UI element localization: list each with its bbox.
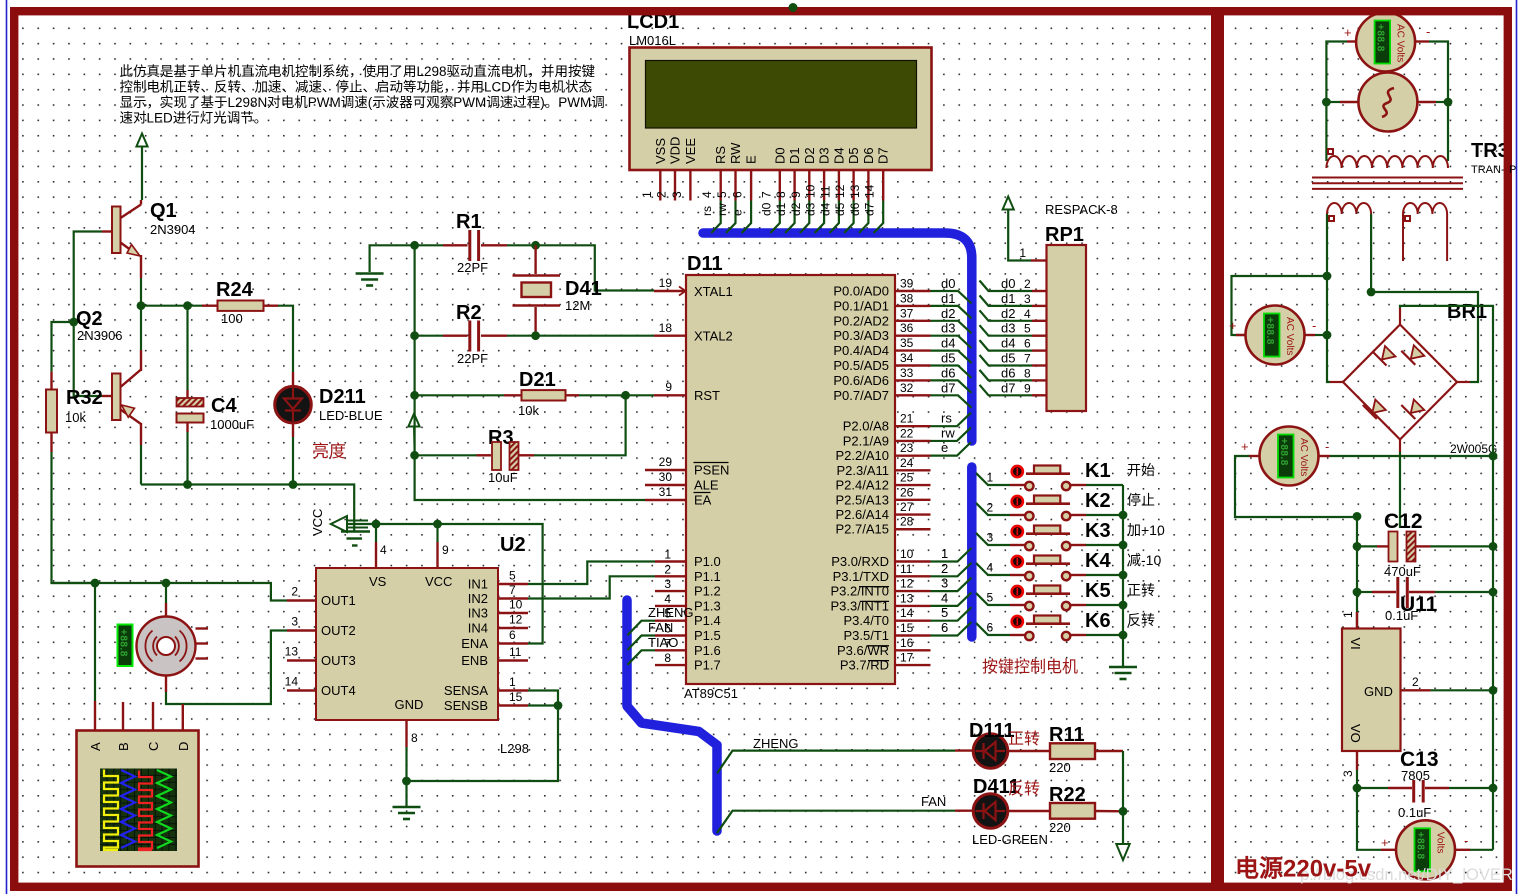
svg-text:P1.2: P1.2 — [694, 584, 721, 599]
svg-text:14: 14 — [863, 184, 877, 198]
svg-text:OUT3: OUT3 — [321, 653, 356, 668]
svg-text:D2: D2 — [802, 147, 817, 164]
svg-text:d5: d5 — [941, 351, 955, 366]
ground — [1109, 667, 1137, 679]
svg-text:P1.5: P1.5 — [694, 628, 721, 643]
svg-text:ENA: ENA — [461, 636, 488, 651]
svg-text:5: 5 — [509, 569, 516, 583]
svg-text:34: 34 — [900, 351, 914, 365]
svg-text:R24: R24 — [216, 279, 254, 301]
svg-text:2: 2 — [1024, 277, 1031, 291]
wire R2 to XTAL2 — [507, 335, 654, 337]
svg-text:d6: d6 — [1001, 365, 1015, 380]
junction — [1444, 98, 1453, 107]
junction right rail — [1489, 588, 1498, 597]
svg-text:P1.3: P1.3 — [694, 598, 721, 613]
svg-text:P3.0/RXD: P3.0/RXD — [831, 554, 889, 569]
svg-text:31: 31 — [659, 485, 673, 499]
ground — [393, 807, 421, 819]
wire meter- to rail — [1470, 849, 1493, 851]
junction — [1323, 331, 1332, 340]
green dot artifact on top border — [789, 3, 798, 12]
wire secondary left leg — [1326, 214, 1328, 276]
junction VS — [372, 520, 381, 529]
bottom rail wire — [141, 485, 354, 531]
svg-text:4: 4 — [380, 543, 387, 557]
U11 pin 2 GND — [1401, 689, 1431, 691]
svg-text:10k: 10k — [518, 403, 539, 418]
svg-text:10: 10 — [900, 547, 914, 561]
svg-text:Q2: Q2 — [76, 308, 103, 330]
wire key net 3 P3.2 to bus — [931, 578, 972, 592]
svg-text:+: + — [1241, 439, 1249, 454]
switch K2 — [976, 503, 1010, 515]
svg-text:d5: d5 — [833, 202, 847, 216]
svg-text:28: 28 — [900, 515, 914, 529]
voltmeter AC middle — [1246, 306, 1305, 365]
svg-text:rw: rw — [941, 425, 955, 440]
svg-text:7: 7 — [509, 583, 516, 597]
svg-text:470uF: 470uF — [1384, 564, 1421, 579]
svg-text:d0: d0 — [1001, 276, 1015, 291]
svg-text:d7: d7 — [863, 202, 877, 216]
wire top motor rail — [52, 583, 288, 601]
junction — [1119, 511, 1128, 520]
junction right rail — [1489, 452, 1498, 461]
D11 pin 8 P1.7 — [655, 664, 686, 666]
svg-text:d6: d6 — [848, 202, 862, 216]
wire scope channel A — [94, 583, 96, 701]
svg-text:d3: d3 — [941, 321, 955, 336]
voltmeter AC lower — [1260, 427, 1319, 486]
svg-text:3: 3 — [1024, 292, 1031, 306]
VCC power flag — [331, 516, 347, 532]
wire left rail — [1356, 516, 1358, 630]
wire right rail down — [1492, 456, 1494, 850]
svg-text:ZHENG: ZHENG — [648, 605, 694, 620]
U2 top pins VS(4) VCC(9) — [375, 524, 377, 542]
svg-text:GND: GND — [1364, 684, 1393, 699]
D11 pin 39 P0.0/AD0 — [895, 290, 931, 292]
junction — [1119, 807, 1128, 816]
svg-text:D211: D211 — [319, 386, 366, 408]
wire Q2 collector down — [140, 445, 142, 485]
svg-text:控制电机正转、反转、加速、减速、停止、启动等功能，并用LCD: 控制电机正转、反转、加速、减速、停止、启动等功能，并用LCD作为电机状态 — [120, 79, 593, 95]
D11 pin 7 P1.6 — [655, 649, 686, 651]
svg-text:VEE: VEE — [683, 138, 698, 164]
svg-text:d2: d2 — [941, 306, 955, 321]
svg-text:A: A — [88, 742, 103, 751]
svg-text:-: - — [1312, 318, 1316, 333]
svg-text:5: 5 — [987, 591, 994, 605]
scope screen — [100, 769, 177, 852]
svg-text:4: 4 — [1024, 307, 1031, 321]
svg-text:U2: U2 — [500, 534, 526, 556]
wire emitter rail — [140, 278, 142, 306]
wire R32 to rail — [52, 452, 96, 583]
U2 pin 8 GND — [405, 720, 407, 747]
voltmeter AC top — [1356, 13, 1415, 72]
svg-text:11: 11 — [818, 185, 832, 198]
svg-text:速对LED进行灯光调节。: 速对LED进行灯光调节。 — [120, 111, 268, 126]
svg-text:P2.7/A15: P2.7/A15 — [836, 522, 890, 537]
wire e LCD to bus — [742, 201, 752, 234]
svg-text:+88.8: +88.8 — [1264, 317, 1275, 345]
wire power to RP1 pin1 — [1008, 210, 1031, 261]
motor right stub pins — [196, 627, 209, 629]
svg-text:D41: D41 — [565, 278, 602, 300]
svg-text:正转: 正转 — [1127, 582, 1155, 598]
wire — [415, 244, 443, 246]
svg-text:加+10: 加+10 — [1127, 522, 1165, 538]
LED D211 LED-BLUE — [292, 372, 294, 386]
wire d2 P0 to bus — [931, 321, 972, 334]
svg-text:10: 10 — [804, 184, 818, 198]
svg-text:8: 8 — [1024, 366, 1031, 380]
LCD pin 3 VEE — [689, 170, 691, 201]
svg-text:D1: D1 — [787, 147, 802, 164]
svg-text:此仿真是基于单片机直流电机控制系统，使用了用L298驱动直流: 此仿真是基于单片机直流电机控制系统，使用了用L298驱动直流电机，并用按键 — [120, 63, 596, 79]
junction crystal top — [531, 241, 540, 250]
svg-text:P2.5/A13: P2.5/A13 — [836, 492, 890, 507]
junction base rail — [69, 318, 78, 327]
junction — [1119, 631, 1128, 640]
svg-text:12: 12 — [900, 577, 914, 591]
svg-text:+: + — [1344, 25, 1352, 40]
svg-text:D0: D0 — [772, 147, 787, 164]
svg-text:P0.0/AD0: P0.0/AD0 — [833, 284, 889, 299]
svg-text:+88.8: +88.8 — [118, 629, 129, 657]
svg-text:9: 9 — [665, 380, 672, 394]
resistor R22 220 — [1008, 810, 1050, 812]
svg-text:13: 13 — [848, 184, 862, 198]
svg-text:1: 1 — [1341, 611, 1355, 618]
LCD pin 10 D3 — [823, 170, 825, 201]
wire d0 P0 to bus — [931, 291, 972, 304]
svg-text:18: 18 — [659, 321, 673, 335]
svg-text:LM016L: LM016L — [629, 33, 676, 48]
svg-text:P: P — [1509, 164, 1516, 176]
D11 pin 33 P0.6/AD6 — [895, 379, 931, 381]
svg-text:37: 37 — [900, 306, 914, 320]
junction — [402, 777, 411, 786]
wire sense loop — [407, 706, 559, 782]
diode D4 (BR1 bottom-right) — [1411, 400, 1425, 414]
svg-text:P2.6/A14: P2.6/A14 — [836, 507, 890, 522]
svg-text:25: 25 — [900, 471, 914, 485]
D11 pin 35 P0.4/AD4 — [895, 349, 931, 351]
svg-text:ALE: ALE — [694, 478, 719, 493]
junction — [554, 701, 563, 710]
svg-text:1: 1 — [1019, 246, 1026, 260]
D11 pin 15 P3.5/T1 — [895, 634, 931, 636]
U2 pin 6 ENA — [498, 642, 528, 644]
D11 pin 19 XTAL1 — [654, 290, 686, 292]
svg-text:rs: rs — [941, 411, 952, 426]
page edge blue lines — [6, 0, 8, 894]
D11 pin 17 P3.7/RD — [895, 664, 931, 666]
U2 pin 14 OUT4 — [287, 689, 316, 691]
svg-text:开始: 开始 — [1127, 462, 1155, 478]
wire bridge bottom down — [1399, 452, 1401, 528]
svg-text:d1: d1 — [941, 291, 955, 306]
svg-text:IN3: IN3 — [468, 606, 488, 621]
wire d1 P0 to bus — [931, 306, 972, 319]
svg-text:C12: C12 — [1384, 510, 1423, 533]
svg-text:P2.4/A12: P2.4/A12 — [836, 478, 890, 493]
U2 pin 11 ENB — [498, 659, 528, 661]
RP1 pin 5 d3 — [980, 325, 1033, 336]
D11 pin 30 ALE — [645, 484, 686, 486]
switch K1 — [976, 473, 1010, 485]
junction right rail — [1489, 542, 1498, 551]
D11 pin 12 P3.2/INT0 — [895, 590, 931, 592]
junction motor — [162, 579, 171, 588]
wire key net 2 P3.1 to bus — [931, 563, 972, 577]
wire key net 4 P3.3 to bus — [931, 592, 972, 606]
svg-text:1: 1 — [509, 675, 516, 689]
motor speed display — [118, 625, 133, 667]
svg-text:d4: d4 — [818, 202, 832, 216]
svg-text:2: 2 — [941, 561, 948, 576]
wire meter- down — [1429, 42, 1448, 103]
svg-text:17: 17 — [900, 651, 914, 665]
svg-text:P2.0/A8: P2.0/A8 — [843, 419, 889, 434]
svg-text:电源220v-5v: 电源220v-5v — [1235, 856, 1372, 883]
switch K5 — [976, 593, 1010, 605]
RP1 pin 2 d0 — [980, 281, 1033, 292]
svg-text:OUT2: OUT2 — [321, 623, 356, 638]
power flag — [408, 414, 419, 427]
switch K6 — [976, 623, 1010, 635]
svg-text:P0.4/AD4: P0.4/AD4 — [833, 343, 889, 358]
svg-text:P3.6/WR: P3.6/WR — [837, 643, 889, 658]
svg-text:P0.7/AD7: P0.7/AD7 — [833, 388, 889, 403]
svg-text:D21: D21 — [519, 369, 556, 391]
svg-text:D7: D7 — [876, 147, 891, 164]
wire — [415, 454, 477, 456]
wire FAN net — [717, 811, 955, 833]
svg-text:-: - — [1325, 439, 1329, 454]
power flag — [1003, 197, 1014, 210]
svg-text:d7: d7 — [1001, 380, 1015, 395]
svg-text:显示，实现了基于L298N对电机PWM调速(示波器可观察PW: 显示，实现了基于L298N对电机PWM调速(示波器可观察PWM调速过程)。PWM… — [120, 94, 605, 110]
wire to output flag — [1122, 811, 1124, 843]
wire d3 LCD to bus — [815, 201, 825, 234]
svg-text:7: 7 — [759, 191, 773, 198]
svg-text:rs: rs — [700, 206, 714, 216]
svg-text:D: D — [176, 742, 191, 751]
svg-text:6: 6 — [1024, 337, 1031, 351]
wire key net 1 P3.0 to bus — [931, 548, 972, 562]
svg-text:L298: L298 — [500, 741, 529, 756]
svg-text:停止: 停止 — [1127, 492, 1155, 508]
svg-text:d3: d3 — [804, 202, 818, 216]
svg-text:10: 10 — [509, 598, 523, 612]
svg-text:P0.1/AD1: P0.1/AD1 — [833, 298, 889, 313]
D11 pin 37 P0.2/AD2 — [895, 320, 931, 322]
wire d6 P0 to bus — [931, 380, 972, 393]
svg-text:R32: R32 — [66, 387, 103, 409]
RP1 pin 8 d6 — [980, 370, 1033, 381]
wire left vertical rail — [415, 245, 645, 500]
wire — [141, 305, 202, 307]
transistor Q2 2N3906 — [112, 374, 121, 421]
wire rw to bus — [931, 427, 972, 441]
D11 pin 36 P0.3/AD3 — [895, 335, 931, 337]
junction VCC — [433, 520, 442, 529]
svg-text:E: E — [744, 155, 759, 164]
svg-text:100: 100 — [221, 311, 243, 326]
wire FAN bus to P1 — [628, 636, 656, 651]
svg-text:按键控制电机: 按键控制电机 — [982, 658, 1078, 676]
junction right rail — [1489, 784, 1498, 793]
svg-text:K6: K6 — [1085, 610, 1111, 632]
svg-text:AC Volts: AC Volts — [1298, 438, 1309, 476]
wire IN2 to P1.1 — [528, 576, 655, 598]
svg-text:39: 39 — [900, 277, 914, 291]
svg-text:D3: D3 — [817, 147, 832, 164]
junction — [621, 391, 630, 400]
svg-text:2: 2 — [655, 191, 669, 198]
junction A — [91, 579, 100, 588]
D11 pin 10 P3.0/RXD — [895, 560, 931, 562]
svg-text:LED-BLUE: LED-BLUE — [319, 408, 383, 423]
svg-text:d4: d4 — [941, 336, 955, 351]
junction node — [137, 301, 146, 310]
svg-text:+: + — [1229, 318, 1237, 333]
D11 pin 22 P2.1/A9 — [895, 440, 931, 442]
D11 pin 29 PSEN — [645, 469, 686, 471]
D11 pin 6 P1.5 — [655, 634, 686, 636]
wire Q1 collector to power — [141, 147, 143, 201]
RP1 pin 4 d2 — [980, 310, 1033, 321]
wire meter+ to VO — [1357, 788, 1381, 850]
svg-text:22PF: 22PF — [457, 351, 488, 366]
svg-text:K4: K4 — [1085, 550, 1111, 572]
wire to C4 — [186, 306, 188, 390]
D11 pin 21 P2.0/A8 — [895, 425, 931, 427]
svg-text:26: 26 — [900, 485, 914, 499]
svg-text:13: 13 — [900, 591, 914, 605]
svg-text:3: 3 — [291, 615, 298, 629]
svg-text:5: 5 — [1024, 322, 1031, 336]
U2 pin 2 OUT1 — [287, 599, 316, 601]
D11 pin 5 P1.4 — [655, 620, 686, 622]
svg-text:d0: d0 — [759, 202, 773, 216]
LCD pin 12 D5 — [852, 170, 854, 201]
D11 pin 1 P1.0 — [655, 560, 686, 562]
svg-text:PSEN: PSEN — [694, 463, 729, 478]
svg-text:d4: d4 — [1001, 336, 1015, 351]
oscilloscope — [77, 731, 199, 867]
svg-text:24: 24 — [900, 456, 914, 470]
svg-text:XTAL1: XTAL1 — [694, 284, 733, 299]
svg-text:P1.6: P1.6 — [694, 643, 721, 658]
wire d6 LCD to bus — [859, 201, 869, 234]
svg-text:23: 23 — [900, 441, 914, 455]
D11 pin 23 P2.2/A10 — [895, 454, 931, 456]
LCD pin 2 VDD — [674, 170, 676, 201]
motor MG1 — [165, 583, 167, 603]
op-amp U2 L298 body — [316, 568, 498, 720]
svg-text:AC Volts: AC Volts — [1284, 317, 1295, 355]
wire d1 LCD to bus — [785, 201, 795, 234]
wire e to bus — [931, 442, 972, 456]
svg-text:P0.2/AD2: P0.2/AD2 — [833, 313, 889, 328]
svg-text:RS: RS — [713, 146, 728, 164]
wire d7 P0 to bus — [931, 395, 972, 408]
voltmeter DC bottom — [1396, 820, 1455, 879]
svg-text:P1.4: P1.4 — [694, 613, 721, 628]
wire key net 5 P3.4 to bus — [931, 607, 972, 621]
wire R1 to XTAL1 — [507, 245, 654, 290]
diode D3 (BR1 bottom-left) — [1372, 400, 1386, 414]
U2 pin 3 OUT2 — [287, 629, 316, 631]
svg-text:38: 38 — [900, 291, 914, 305]
svg-text:4: 4 — [987, 561, 994, 575]
svg-text:6: 6 — [731, 191, 745, 198]
wire R24 to D211 — [278, 306, 293, 372]
svg-text:3: 3 — [941, 576, 948, 591]
bus vertical (P0/keys) — [703, 233, 972, 441]
svg-text:0.1uF: 0.1uF — [1398, 805, 1431, 820]
svg-text:15: 15 — [900, 621, 914, 635]
svg-text:R11: R11 — [1049, 724, 1085, 746]
svg-text:13: 13 — [285, 645, 299, 659]
svg-text:Q1: Q1 — [150, 200, 177, 222]
svg-text:12M: 12M — [565, 298, 590, 313]
svg-text:P3.1/TXD: P3.1/TXD — [833, 569, 889, 584]
svg-text:IN4: IN4 — [468, 621, 488, 636]
U2 pin 7 IN2 — [498, 597, 528, 599]
wire ZHENG net — [717, 751, 955, 774]
LED D411 LED-GREEN — [955, 810, 973, 812]
svg-text:1000uF: 1000uF — [210, 417, 254, 432]
svg-text:10uF: 10uF — [488, 470, 518, 485]
wire Q1 base — [102, 230, 112, 232]
svg-text:1: 1 — [640, 191, 654, 198]
svg-text:ZHENG: ZHENG — [753, 736, 799, 751]
transistor Q1 2N3904 — [112, 207, 121, 254]
RP1 pin 9 d7 — [980, 385, 1033, 396]
svg-text:Volts: Volts — [1435, 832, 1446, 854]
LCD pin 13 D6 — [867, 170, 869, 201]
wire rw LCD to bus — [726, 201, 736, 234]
svg-text:VI: VI — [1348, 638, 1363, 650]
svg-text:2: 2 — [664, 562, 671, 576]
svg-text:22: 22 — [900, 426, 914, 440]
svg-text:ENB: ENB — [461, 653, 488, 668]
resistor D21 10k — [415, 394, 504, 396]
svg-text:1: 1 — [664, 548, 671, 562]
svg-text:P1.1: P1.1 — [694, 569, 721, 584]
wire to bridge left — [1327, 276, 1330, 382]
wire SENSB — [528, 704, 558, 706]
svg-text:+88.8: +88.8 — [1375, 24, 1386, 52]
svg-text:P1.0: P1.0 — [694, 554, 721, 569]
wire d7 LCD to bus — [874, 201, 884, 234]
D11 pin 31 EA — [645, 499, 686, 501]
svg-text:C4: C4 — [211, 395, 237, 417]
svg-text:3: 3 — [987, 531, 994, 545]
junction crystal bottom — [531, 331, 540, 340]
svg-text:6: 6 — [509, 628, 516, 642]
LCD pin 6 E — [750, 170, 752, 201]
wire d2 LCD to bus — [800, 201, 810, 234]
ground — [356, 274, 384, 286]
svg-text:8: 8 — [411, 731, 418, 745]
